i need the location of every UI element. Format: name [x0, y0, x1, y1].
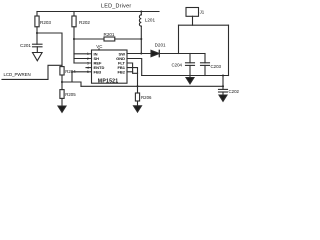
- node at inductor top: [140, 11, 142, 13]
- ground (below C204): [186, 76, 194, 84]
- node at (141.3,39): [140, 38, 142, 40]
- resistor R204: [60, 67, 76, 75]
- ground (R206): [134, 106, 142, 112]
- wire top rail: [37, 11, 159, 13]
- inductor L201: [139, 12, 155, 27]
- wire rail to R201: [74, 38, 104, 40]
- svg-text:FB3: FB3: [94, 69, 102, 74]
- wire J1 left leg: [178, 25, 180, 53]
- wire feedback bottom rail: [81, 85, 223, 87]
- svg-text:2: 2: [87, 57, 89, 61]
- node at (37,33): [36, 32, 38, 34]
- capacitor C201: [20, 43, 42, 48]
- svg-text:5: 5: [87, 70, 89, 74]
- pin labels right column: [116, 51, 126, 74]
- svg-text:R206: R206: [141, 95, 152, 100]
- resistor R206: [135, 93, 152, 101]
- svg-text:L201: L201: [145, 18, 156, 23]
- diode D201: [151, 43, 166, 57]
- wire pin row 8: [127, 63, 138, 73]
- wire diode cathode rail: [159, 53, 205, 55]
- pin numbers left: [87, 52, 89, 74]
- connector J1: [186, 8, 205, 17]
- wire C202 to ground: [222, 92, 224, 95]
- svg-text:R202: R202: [79, 20, 90, 25]
- node divider junction: [61, 81, 63, 83]
- node at (141.3,53.5): [140, 53, 142, 55]
- wire J1 right leg: [228, 25, 230, 75]
- wire R202 top stub: [73, 12, 75, 17]
- svg-text:C203: C203: [211, 64, 222, 69]
- wire to C202: [222, 76, 224, 90]
- wire pin row 6: [127, 71, 133, 73]
- wire pin row 4: [86, 67, 92, 69]
- node at (137.5,86.3): [137, 85, 139, 87]
- node at (223,75.5): [222, 75, 224, 77]
- pin VC label: [96, 44, 102, 50]
- svg-text:C202: C202: [229, 89, 240, 94]
- ground (R205): [58, 106, 66, 112]
- wire J1 bottom bar: [179, 24, 229, 26]
- svg-text:LCD_PWREN: LCD_PWREN: [4, 72, 31, 77]
- resistor R205: [60, 90, 76, 99]
- svg-text:LED_Driver: LED_Driver: [101, 3, 131, 9]
- wire pin row 2: [74, 58, 92, 60]
- svg-text:C204: C204: [172, 63, 183, 68]
- wire output gnd rail: [142, 75, 229, 77]
- wire R204 to R205: [61, 75, 63, 90]
- ground (C202): [219, 95, 227, 101]
- svg-text:MP1521: MP1521: [98, 78, 119, 84]
- svg-text:D201: D201: [155, 43, 166, 48]
- svg-text:J1: J1: [200, 10, 205, 15]
- ground (C201): [33, 53, 43, 61]
- pin labels left column: [94, 51, 105, 74]
- capacitor C204: [172, 54, 195, 76]
- resistor R201: [104, 32, 115, 41]
- wire divider junction to bottom rail: [62, 82, 81, 86]
- svg-text:R203: R203: [40, 20, 51, 25]
- svg-text:R201: R201: [104, 32, 115, 37]
- wire R202 column down to IN pin: [73, 27, 75, 63]
- wire IN pin row: [74, 53, 92, 55]
- svg-text:R205: R205: [65, 92, 76, 97]
- wire inductor bottom to SW rail: [140, 26, 142, 53]
- capacitor C202: [219, 89, 240, 94]
- wire R206 column: [137, 73, 139, 93]
- wire GND pin to output rail: [127, 59, 142, 76]
- svg-text:1: 1: [87, 52, 89, 56]
- wire LCD_PWREN: [2, 65, 62, 79]
- wire branch to R204 column: [37, 33, 62, 66]
- wire C201 to ground: [36, 47, 38, 53]
- wire R203 top stub: [36, 12, 38, 17]
- wire R205 to ground: [61, 98, 63, 106]
- wire pin row 3: [74, 62, 92, 64]
- wire R201 to inductor column: [115, 38, 142, 40]
- svg-text:FB2: FB2: [117, 69, 125, 74]
- wire R203 bottom to C201: [36, 27, 38, 44]
- resistor R203: [35, 16, 52, 27]
- svg-text:C201: C201: [20, 43, 31, 48]
- resistor R202: [72, 16, 91, 27]
- node at (74,39): [73, 38, 75, 40]
- wire pin row 7: [127, 68, 138, 74]
- wire divider junction up to pin FB3: [72, 72, 92, 82]
- svg-text:3: 3: [87, 61, 89, 65]
- op-amp U201 MP1521: [92, 50, 128, 84]
- wire SW pin to diode: [127, 53, 151, 55]
- wire J1 stub: [192, 16, 194, 25]
- capacitor C203: [201, 54, 222, 76]
- wire R206 to ground: [137, 101, 139, 106]
- node at (223,86.3): [222, 85, 224, 87]
